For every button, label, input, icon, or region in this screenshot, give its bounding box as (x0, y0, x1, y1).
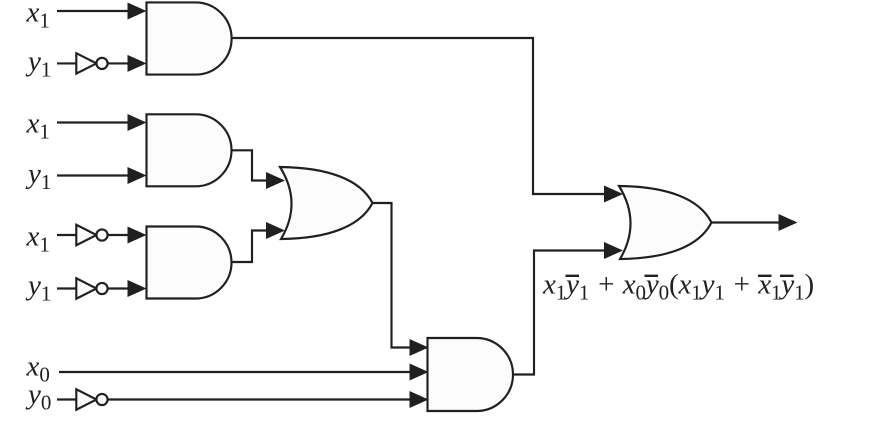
OR gate G6 (final) (619, 186, 712, 259)
arrowhead y1 G1 (128, 55, 147, 72)
AND gate G3 (NOT x1 AND NOT y1) (147, 227, 232, 299)
inverter on x1 input of G3 (57, 234, 76, 236)
wire G4 output to G5 top input (373, 203, 411, 348)
wire G5 output to G6 bottom input (513, 251, 605, 375)
svg-text:y1: y1 (25, 46, 51, 82)
svg-text:y1: y1 (25, 158, 51, 194)
wire G1 output to G6 top input (233, 38, 606, 194)
AND gate G5 (bottom, 3-input) (428, 338, 514, 411)
arrowhead G4 bottom input (266, 222, 285, 239)
arrowhead G5 x0 input (410, 364, 429, 381)
arrowhead x1 G2 (128, 114, 147, 131)
overbar on y0 (645, 275, 659, 277)
arrowhead x1 G1 (128, 3, 147, 20)
inverter on y0 input of G5 (57, 398, 76, 400)
arrowhead G5 top input (410, 339, 429, 356)
inverter on y1 input of G1 (57, 62, 76, 64)
svg-text:y1: y1 (25, 270, 51, 306)
overbar on first y1 (566, 275, 580, 277)
arrowhead x1 G3 (128, 227, 147, 244)
arrowhead y1 G3 (128, 280, 147, 297)
wire G2 output to G4 top input (232, 150, 269, 180)
wire x0 to G5 (59, 371, 410, 373)
arrowhead y1 G2 (128, 167, 147, 184)
wire x1 to G2 (57, 121, 129, 123)
arrowhead G6 top input (604, 186, 623, 203)
arrowhead G4 top input (266, 172, 285, 189)
wire x1 to G1 (57, 10, 129, 12)
svg-text:x1: x1 (26, 221, 50, 257)
output wire of G6 (712, 221, 781, 223)
wire y1 to G2 (57, 174, 129, 176)
svg-text:x1: x1 (26, 108, 50, 144)
arrowhead G5 y0 input (410, 391, 429, 408)
overbar on last y1 (780, 275, 794, 277)
arrowhead final output (779, 214, 798, 231)
arrowhead G6 bottom input (604, 242, 623, 259)
svg-text:x1: x1 (26, 0, 50, 33)
svg-text:x1y1 + x0y0(x1y1 + x1y1): x1y1 + x0y0(x1y1 + x1y1) (542, 269, 814, 305)
OR gate G4 (middle) (280, 167, 373, 239)
inverter on y1 input of G3 (57, 287, 76, 289)
AND gate G1 (x1 AND NOT y1) (147, 2, 232, 74)
overbar on x1 (in parens) (758, 275, 772, 277)
wire G3 output to G4 bottom input (232, 231, 269, 263)
AND gate G2 (x1 AND y1) (147, 114, 232, 186)
